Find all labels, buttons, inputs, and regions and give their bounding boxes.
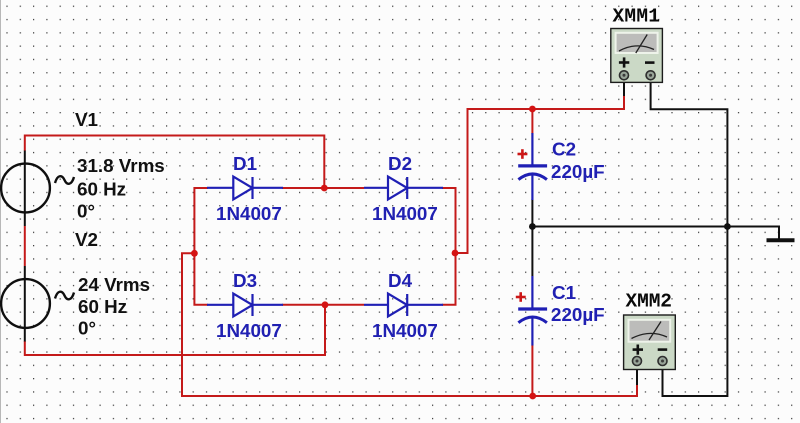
diode D1	[207, 177, 283, 200]
node middle left (junction)	[529, 223, 536, 230]
svg-text:XMM1: XMM1	[613, 5, 660, 27]
diode D4	[364, 294, 443, 317]
wire C2 top red lead	[531, 109, 533, 134]
wire D3-D4 row red segment	[282, 304, 364, 306]
svg-text:1N4007: 1N4007	[372, 203, 438, 224]
capacitor C2	[518, 133, 548, 200]
wire V1 top to bridge top node	[25, 136, 325, 189]
svg-text:1N4007: 1N4007	[216, 320, 282, 341]
wire XMM1 plus black stub	[623, 82, 625, 96]
svg-text:C2: C2	[552, 139, 576, 160]
wire ground branch	[727, 227, 779, 240]
wire left node to bottom rail to XMM2 plus	[182, 253, 637, 396]
svg-text:60 Hz: 60 Hz	[77, 179, 126, 200]
node middle right / ground tap (junction)	[724, 223, 731, 230]
wire bridge output to C2 top and XMM1 plus	[455, 95, 624, 253]
wire D2/D4 cathode join vertical	[442, 188, 456, 305]
svg-text:0°: 0°	[77, 201, 95, 222]
svg-text:C1: C1	[552, 282, 576, 303]
svg-text:24 Vrms: 24 Vrms	[78, 274, 150, 295]
wire C2 bottom black lead	[531, 199, 533, 227]
wire XMM2 plus black stub	[636, 368, 638, 385]
node bridge left (junction)	[191, 250, 198, 257]
node bridge output (junction)	[452, 250, 459, 257]
svg-text:D2: D2	[388, 153, 412, 174]
ground	[767, 238, 795, 242]
svg-text:220µF: 220µF	[551, 161, 605, 182]
svg-text:0°: 0°	[78, 318, 96, 339]
wire D1-D2 row red segment	[282, 187, 364, 189]
svg-text:V1: V1	[75, 109, 98, 130]
AC source V2	[1, 266, 74, 342]
multimeter XMM2	[624, 315, 676, 370]
diode D2	[364, 177, 443, 200]
wire C1 top black lead	[531, 226, 533, 276]
svg-text:1N4007: 1N4007	[216, 203, 282, 224]
svg-text:31.8 Vrms: 31.8 Vrms	[77, 155, 165, 176]
wire XMM1 minus to right rail to XMM2 minus (black)	[651, 82, 728, 396]
svg-text:XMM2: XMM2	[626, 291, 672, 313]
svg-text:60 Hz: 60 Hz	[78, 296, 127, 317]
AC source V1	[1, 151, 74, 227]
wire C1 bottom red lead	[531, 345, 533, 396]
svg-text:V2: V2	[75, 229, 98, 250]
diode D3	[207, 294, 283, 317]
svg-text:D3: D3	[233, 270, 257, 291]
node bridge top (junction)	[321, 185, 328, 192]
capacitor C1	[516, 276, 547, 346]
wire V2 bottom to bridge bottom node	[25, 305, 325, 355]
node C1 bottom (junction)	[529, 393, 536, 400]
svg-text:220µF: 220µF	[551, 304, 605, 325]
node bridge bottom (junction)	[322, 301, 329, 308]
node C2 top (junction)	[529, 106, 536, 113]
svg-text:D4: D4	[388, 270, 413, 291]
svg-text:1N4007: 1N4007	[372, 320, 438, 341]
svg-text:D1: D1	[233, 153, 257, 174]
wire V1 minus to V2 plus	[24, 226, 26, 266]
wire bridge left vertical (D1/D3 anodes)	[194, 188, 208, 305]
window left border	[0, 0, 1, 423]
multimeter XMM1	[611, 29, 663, 83]
wire middle node C2/C1 to right rail (black)	[532, 226, 727, 228]
